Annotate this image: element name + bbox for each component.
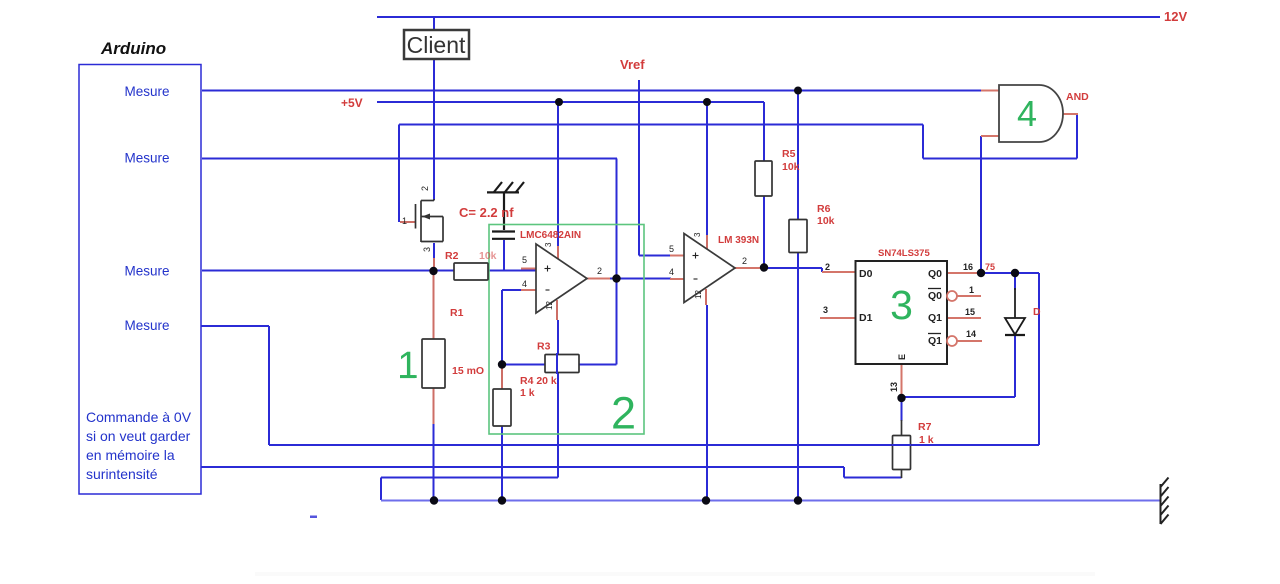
svg-text:1 k: 1 k [520,387,535,399]
svg-text:12: 12 [694,290,703,299]
svg-text:2: 2 [742,256,747,266]
svg-text:1: 1 [397,345,418,387]
svg-text:5: 5 [669,244,674,254]
svg-text:surintensité: surintensité [86,466,158,482]
svg-text:Q1: Q1 [928,335,942,347]
svg-text:AND: AND [1066,91,1089,103]
svg-text:10k: 10k [479,250,497,262]
svg-text:si on veut garder: si on veut garder [86,428,191,444]
svg-text:Arduino: Arduino [100,39,166,58]
svg-text:Q0: Q0 [928,290,942,302]
svg-text:Vref: Vref [620,57,645,72]
svg-text:12V: 12V [1164,9,1187,24]
svg-text:13: 13 [889,382,899,392]
svg-text:Commande à 0V: Commande à 0V [86,409,192,425]
svg-text:R6: R6 [817,203,831,215]
svg-text:5: 5 [522,255,527,265]
svg-text:Mesure: Mesure [124,151,169,166]
svg-text:12: 12 [545,301,554,310]
svg-text:D: D [1033,306,1041,318]
svg-text:2: 2 [420,186,430,191]
svg-text:Q1: Q1 [928,312,942,324]
svg-text:R3: R3 [537,341,551,353]
svg-text:3: 3 [823,305,828,315]
svg-text:D0: D0 [859,268,873,280]
svg-text:3: 3 [890,282,913,328]
svg-text:en mémoire la: en mémoire la [86,447,175,463]
svg-text:1: 1 [402,216,407,226]
svg-text:15: 15 [965,307,975,317]
svg-text:R7: R7 [918,421,932,433]
svg-text:SN74LS375: SN74LS375 [878,248,930,259]
svg-text:+5V: +5V [341,96,363,110]
svg-text:E: E [897,354,907,360]
svg-text:1: 1 [969,285,974,295]
svg-text:C= 2.2 nf: C= 2.2 nf [459,205,514,220]
svg-text:Mesure: Mesure [124,84,169,99]
svg-text:75: 75 [985,262,995,272]
svg-text:10k: 10k [817,215,835,227]
svg-text:3: 3 [693,232,702,237]
svg-text:3: 3 [422,247,432,252]
svg-text:R2: R2 [445,250,459,262]
svg-text:4: 4 [522,279,527,289]
svg-text:Mesure: Mesure [124,264,169,279]
svg-text:LMC6482AIN: LMC6482AIN [520,230,581,241]
svg-text:4: 4 [1017,93,1037,134]
svg-text:LM 393N: LM 393N [718,235,759,246]
svg-text:4: 4 [669,267,674,277]
svg-text:Client: Client [407,32,466,58]
svg-text:Q0: Q0 [928,268,942,280]
svg-text:R5: R5 [782,148,796,160]
svg-text:1 k: 1 k [919,434,934,446]
svg-text:R1: R1 [450,307,464,319]
svg-text:R4 20 k: R4 20 k [520,375,557,387]
svg-text:2: 2 [825,262,830,272]
svg-text:2: 2 [611,388,636,439]
svg-text:D1: D1 [859,312,873,324]
svg-text:14: 14 [966,329,976,339]
svg-text:Mesure: Mesure [124,318,169,333]
svg-text:3: 3 [544,242,553,247]
svg-text:16: 16 [963,262,973,272]
svg-text:10k: 10k [782,161,800,173]
svg-text:2: 2 [597,266,602,276]
svg-text:15 mO: 15 mO [452,365,484,377]
